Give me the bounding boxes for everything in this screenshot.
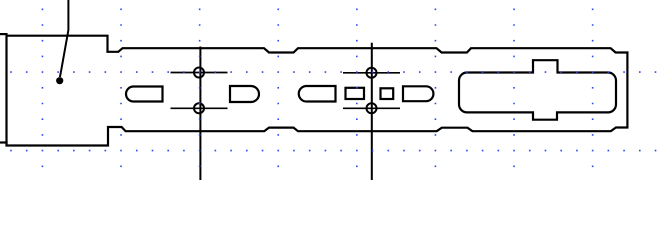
rectangle hole 1: [346, 88, 365, 99]
slot D (round right): [403, 86, 433, 101]
grid dots: [10, 9, 656, 168]
point marker dot: [56, 77, 63, 84]
rectangle hole 2: [381, 88, 394, 99]
centerline 1 vertical: [199, 47, 201, 181]
crosshair circle 1: [194, 68, 204, 78]
crosshair h-line 4: [343, 107, 400, 109]
crosshair circle 3: [367, 68, 377, 78]
slot C (round left): [299, 86, 336, 102]
part outline: [7, 36, 628, 146]
centerline 2 vertical: [371, 43, 373, 180]
frame tick top-left: [0, 33, 7, 35]
big cutout with tabs: [459, 60, 616, 119]
frame tick bottom-left: [0, 141, 7, 143]
slot B (round right): [230, 86, 259, 102]
leader line to point: [60, 0, 69, 77]
crosshair circle 4: [367, 103, 377, 113]
crosshair circle 2: [194, 103, 204, 113]
crosshair h-line 2: [171, 107, 228, 109]
slot A (round left): [126, 87, 162, 102]
crosshair h-line 1: [171, 72, 228, 74]
crosshair h-line 3: [343, 72, 400, 74]
